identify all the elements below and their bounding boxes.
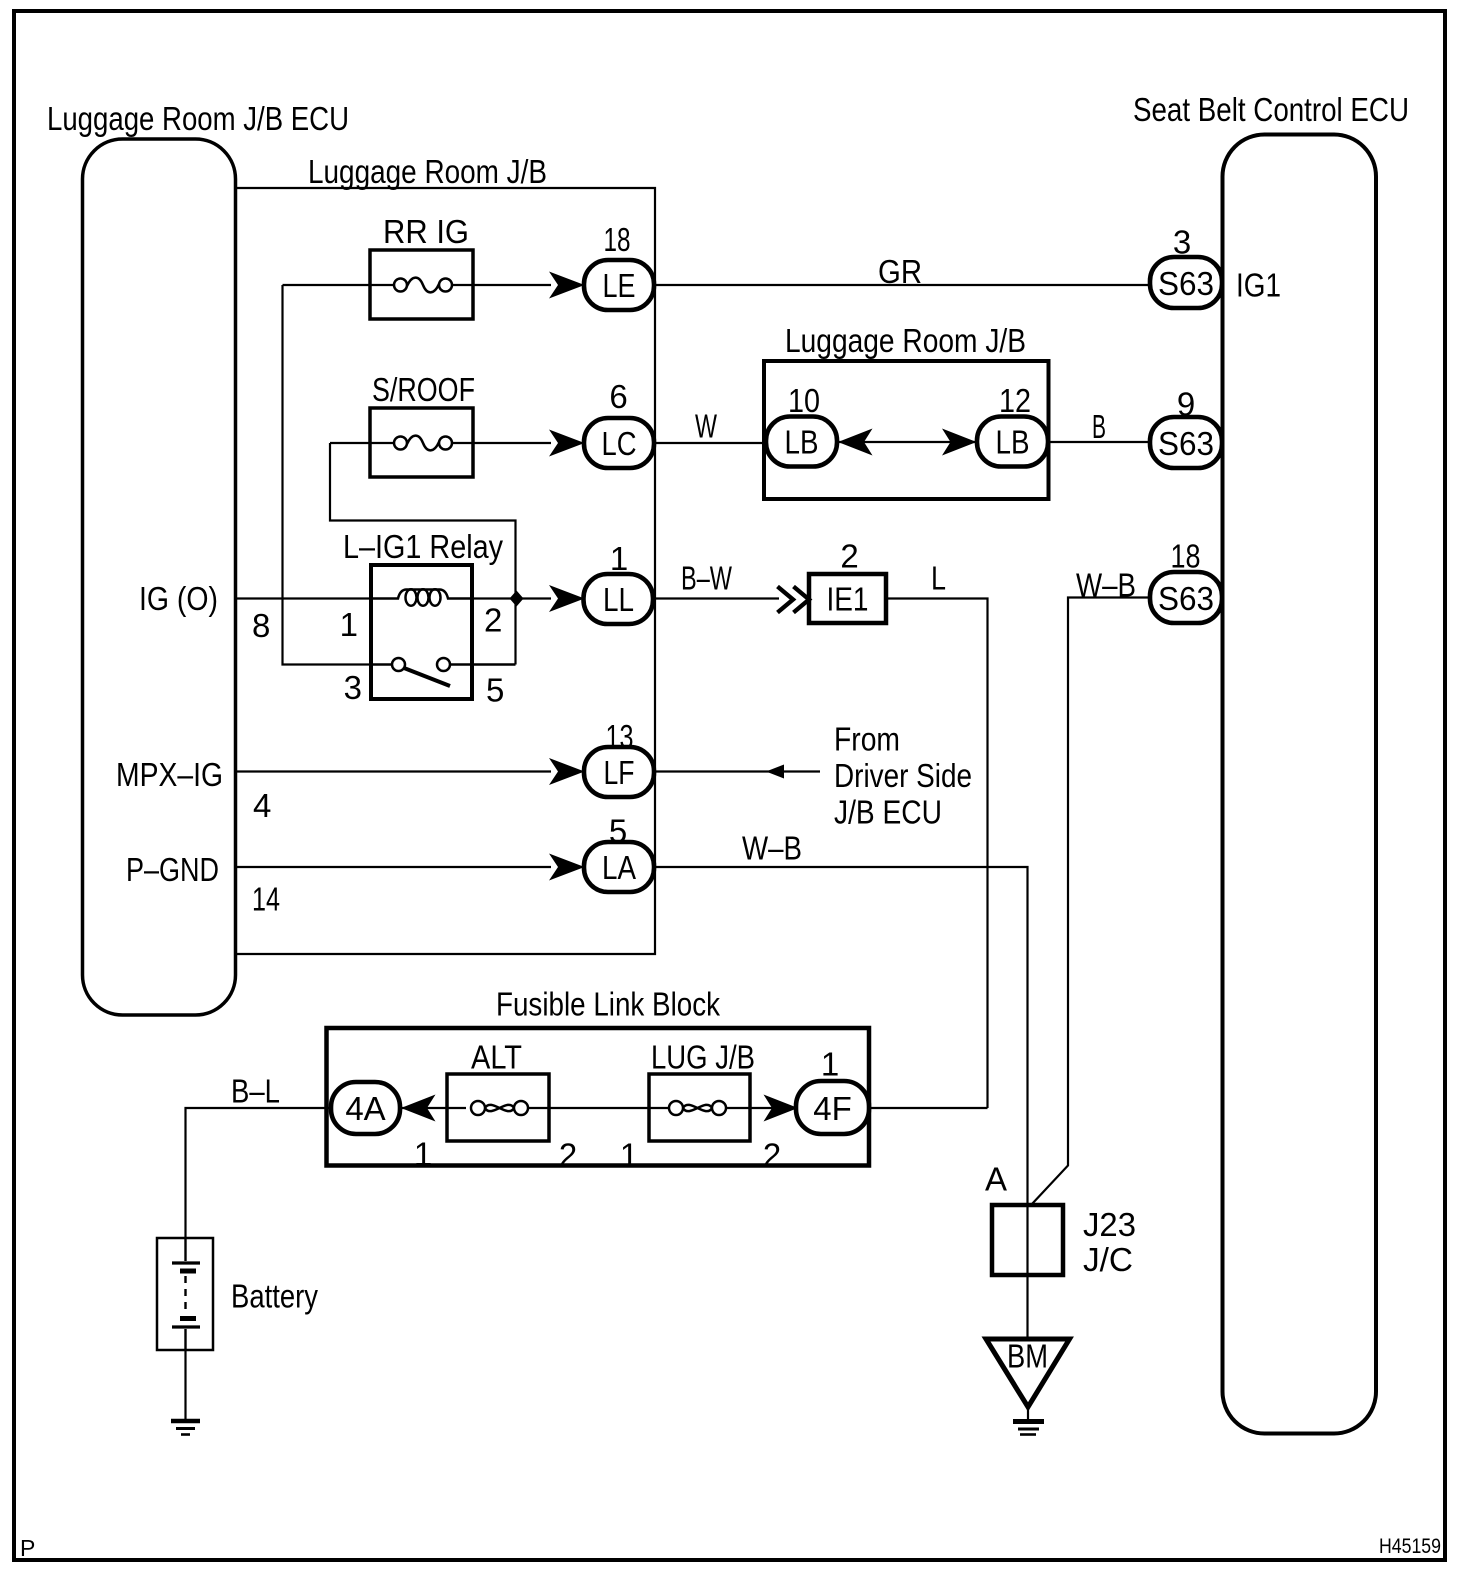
connector pin 4F (pin 1) <box>796 1081 869 1134</box>
svg-text:3: 3 <box>344 669 362 706</box>
wire: ALT to LUG J/B link <box>527 1107 670 1109</box>
svg-text:W: W <box>695 408 718 445</box>
ECU block U2: Seat Belt Control ECU pill <box>1223 135 1377 1434</box>
wire: B-W net, LL to IE1 chevrons <box>653 597 779 599</box>
svg-text:ALT: ALT <box>471 1039 522 1076</box>
arrow: out of LB10 (points left) <box>838 429 873 456</box>
svg-text:LC: LC <box>602 425 637 462</box>
svg-text:5: 5 <box>486 672 504 709</box>
svg-text:LE: LE <box>603 267 636 304</box>
svg-text:4A: 4A <box>345 1090 385 1127</box>
svg-text:5: 5 <box>609 813 627 850</box>
svg-text:W–B: W–B <box>1076 567 1136 604</box>
fusible link FL2: element symbol <box>669 1101 726 1115</box>
battery B1: internal plates <box>172 1238 200 1350</box>
wire: W-B net, LA to J23 junction <box>654 867 1028 1339</box>
connector pin S63 (pin 3) <box>1150 257 1222 308</box>
arrow: into LL <box>549 585 585 612</box>
ground: BM ground symbol <box>1013 1422 1044 1435</box>
wire: relay pin 2 to LL arrow <box>472 597 551 599</box>
svg-text:9: 9 <box>1177 386 1195 423</box>
fusible link FL1: ALT box <box>447 1074 549 1141</box>
svg-text:18: 18 <box>604 221 631 258</box>
svg-text:IG1: IG1 <box>1236 267 1281 304</box>
wire: W-B net from S63 pin 18 down to J23 <box>1032 598 1151 1205</box>
wire: S/ROOF branch down <box>330 443 516 665</box>
node: junction dot at relay output <box>510 591 524 607</box>
svg-text:4F: 4F <box>813 1090 852 1127</box>
svg-text:P: P <box>20 1535 35 1561</box>
svg-text:LL: LL <box>603 581 634 618</box>
svg-text:S63: S63 <box>1158 580 1214 617</box>
svg-text:10: 10 <box>788 382 820 419</box>
svg-text:4: 4 <box>253 787 271 824</box>
svg-text:LUG J/B: LUG J/B <box>651 1039 755 1076</box>
arrow: into 4F <box>764 1095 799 1122</box>
svg-text:B: B <box>1092 408 1106 445</box>
wire: W net, LC to LB pin 10 <box>654 442 770 444</box>
svg-text:B–L: B–L <box>231 1073 280 1110</box>
svg-text:H45159: H45159 <box>1379 1535 1441 1558</box>
svg-text:1: 1 <box>340 606 358 643</box>
svg-text:LB: LB <box>996 424 1030 461</box>
wire: LUG J/B link to 4F <box>725 1107 797 1109</box>
arrow: double chevron into IE1 <box>778 587 810 613</box>
relay K1: coil between pins 1 and 2 <box>371 589 472 606</box>
wire: S/ROOF fuse output to LC arrow <box>452 442 551 444</box>
arrow: from Driver Side (points left) <box>766 765 784 779</box>
wire: GR net, LE to S63 pin 3 <box>654 284 1150 286</box>
svg-text:2: 2 <box>484 602 502 639</box>
svg-text:IE1: IE1 <box>827 581 869 618</box>
wire: 4F output to L net <box>868 1107 988 1109</box>
wire: RR IG fuse output to LE arrow <box>452 284 551 286</box>
fuse F2: element symbol <box>394 436 452 451</box>
wire: RR IG fuse left lead <box>283 284 395 286</box>
svg-text:2: 2 <box>840 538 858 575</box>
fuse F2: S/ROOF box <box>370 408 473 477</box>
svg-text:J23: J23 <box>1083 1206 1136 1243</box>
arrow: into LC <box>549 430 585 457</box>
svg-text:Fusible Link Block: Fusible Link Block <box>496 986 720 1023</box>
battery B1: box <box>157 1238 213 1350</box>
connector pin S63 (pin 18) <box>1150 572 1222 623</box>
svg-text:S63: S63 <box>1158 265 1214 302</box>
wire: B net, LB pin 12 to S63 pin 9 <box>1046 441 1150 443</box>
svg-text:L–IG1 Relay: L–IG1 Relay <box>343 528 503 565</box>
svg-text:J/B ECU: J/B ECU <box>834 794 942 831</box>
arrow: into LE <box>549 272 585 299</box>
svg-text:1: 1 <box>620 1137 638 1174</box>
connector pin LC (J/B pin 6) <box>584 418 654 468</box>
svg-text:13: 13 <box>606 718 634 755</box>
fuse F1: element symbol <box>394 278 452 293</box>
wire: P-GND from ECU pin 14 to LA arrow <box>236 866 552 868</box>
wire: BM apex to ground <box>1027 1405 1029 1419</box>
wire: RR IG feed vertical (relay pin 3 to fuse) <box>283 285 372 665</box>
svg-text:From: From <box>834 721 900 758</box>
connector pin LB (pin 10) <box>766 417 837 467</box>
svg-text:18: 18 <box>1171 538 1201 575</box>
svg-text:LA: LA <box>602 849 636 886</box>
relay K1: box <box>371 565 472 699</box>
svg-text:Driver Side: Driver Side <box>834 757 972 794</box>
fusible link FL2: LUG J/B box <box>649 1074 750 1141</box>
svg-text:MPX–IG: MPX–IG <box>116 756 223 793</box>
relay K1: contact between pins 3 and 5 <box>371 658 516 686</box>
svg-text:GR: GR <box>878 253 922 290</box>
wire: battery negative to ground <box>184 1350 186 1419</box>
svg-text:6: 6 <box>609 378 627 415</box>
connector J1: IE1 box <box>809 574 886 623</box>
connector pin LF (J/B pin 13) <box>584 747 654 797</box>
wire: LF to Driver Side J/B ECU <box>654 770 820 772</box>
fusible link block box <box>327 1028 870 1166</box>
connector pin LA (J/B pin 5) <box>584 842 654 892</box>
ECU block U1: Luggage Room J/B ECU pill <box>83 139 236 1015</box>
svg-text:S63: S63 <box>1158 425 1214 462</box>
svg-text:LB: LB <box>785 424 819 461</box>
svg-text:2: 2 <box>763 1137 781 1174</box>
connector pin LL (J/B pin 1) <box>584 574 654 624</box>
arrow: into LB12 <box>942 429 977 456</box>
junction block box: Luggage Room J/B outline <box>236 188 656 954</box>
svg-text:2: 2 <box>559 1137 577 1174</box>
svg-text:J/C: J/C <box>1083 1241 1133 1278</box>
junction block box: LB connector block <box>764 361 1049 499</box>
wire: B-L net, battery to 4A <box>186 1108 334 1238</box>
svg-text:Luggage Room J/B ECU: Luggage Room J/B ECU <box>47 100 349 137</box>
svg-text:Battery: Battery <box>231 1278 318 1315</box>
fusible link FL1: element symbol <box>471 1101 528 1115</box>
connector pin LE (J/B pin 18) <box>584 260 654 310</box>
svg-text:IG (O): IG (O) <box>139 580 218 617</box>
connector pin S63 (pin 9) <box>1150 417 1222 468</box>
svg-text:BM: BM <box>1007 1338 1048 1375</box>
svg-text:Seat Belt Control ECU: Seat Belt Control ECU <box>1133 91 1409 128</box>
wire: IG (O) from ECU pin 8 to relay pin 1 <box>236 597 372 599</box>
connector pin LB (pin 12) <box>977 417 1048 467</box>
wire: LB10 to LB12 inside J/B <box>835 441 980 443</box>
svg-text:A: A <box>985 1161 1007 1198</box>
ground point BM: triangle <box>986 1339 1070 1407</box>
svg-text:Luggage Room J/B: Luggage Room J/B <box>308 153 547 190</box>
svg-text:S/ROOF: S/ROOF <box>372 371 475 408</box>
svg-text:W–B: W–B <box>742 830 802 867</box>
arrow: out of 4A (points left) <box>401 1095 436 1122</box>
svg-text:B–W: B–W <box>681 560 733 597</box>
connector pin 4A <box>331 1082 400 1134</box>
svg-text:12: 12 <box>999 382 1031 419</box>
svg-text:3: 3 <box>1173 224 1191 261</box>
svg-text:1: 1 <box>610 540 628 577</box>
svg-text:P–GND: P–GND <box>126 851 219 888</box>
svg-text:L: L <box>931 560 946 597</box>
junction connector J23: box <box>992 1205 1063 1275</box>
wire: 4A to ALT fusible link <box>400 1107 466 1109</box>
svg-text:8: 8 <box>252 607 270 644</box>
svg-text:LF: LF <box>604 754 635 791</box>
wire: S/ROOF fuse left lead <box>330 442 394 444</box>
svg-text:14: 14 <box>252 881 280 918</box>
fuse F1: RR IG box <box>370 250 473 319</box>
arrow: into LA <box>549 854 585 881</box>
arrow: into LF <box>549 758 585 785</box>
wire: L net from IE1 down to fusible link 4F <box>886 599 988 1109</box>
svg-text:1: 1 <box>821 1046 839 1083</box>
svg-text:RR IG: RR IG <box>383 213 469 250</box>
svg-text:1: 1 <box>414 1136 432 1173</box>
ground: battery ground symbol <box>171 1421 200 1435</box>
wire: MPX-IG from ECU pin 4 to LF arrow <box>236 770 552 772</box>
svg-text:Luggage Room J/B: Luggage Room J/B <box>785 322 1026 359</box>
